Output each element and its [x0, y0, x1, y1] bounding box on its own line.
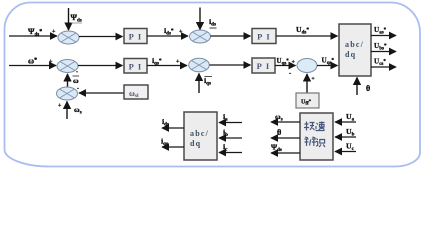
svg-text:ids: ids [162, 117, 169, 128]
wire Ψds* input [9, 35, 57, 37]
svg-text:-: - [289, 70, 291, 77]
wire ωs input to SJ3 (vertical) [66, 102, 68, 120]
wire ic input of U2 [219, 142, 242, 153]
wire ia input of U2 [219, 112, 242, 123]
wire ωs output of U3 [271, 112, 300, 123]
svg-text:+: + [179, 29, 183, 35]
summing junction SJ5 [190, 30, 211, 43]
svg-text:Uas*: Uas* [374, 26, 387, 36]
block speed identification U3 [300, 113, 333, 160]
svg-text:ω*: ω* [28, 57, 37, 66]
svg-text:abc/: abc/ [190, 129, 209, 138]
wire PI2 to abc/dq, label Uds* [276, 25, 338, 36]
label ω* [28, 57, 53, 66]
wire Uas* output [371, 26, 396, 36]
svg-text:P I: P I [257, 61, 271, 71]
wire Ub input of U3 [335, 127, 356, 138]
wire PI3 to SJ4, label iqs* + [147, 56, 187, 67]
wire Ψds feedback (vertical) [68, 8, 70, 30]
svg-text:-: - [76, 70, 78, 76]
svg-text:abc/: abc/ [345, 40, 364, 49]
svg-text:θ: θ [277, 128, 281, 137]
svg-text:iqs: iqs [161, 137, 168, 148]
summing junction SJ4 [189, 58, 210, 72]
svg-text:ids*: ids* [164, 26, 174, 37]
wire SJ5 to PI2 [211, 35, 251, 37]
svg-text:θ: θ [366, 84, 370, 93]
svg-text:+: + [49, 59, 53, 65]
svg-text:iqs: iqs [204, 76, 211, 87]
wire iqs output of U2 [161, 137, 184, 148]
wire θ output of U3 [271, 128, 300, 138]
wire ω* input [9, 65, 56, 67]
svg-text:Ub: Ub [346, 127, 355, 138]
svg-text:Ua: Ua [346, 112, 355, 123]
summing junction SJ3 [57, 87, 78, 100]
svg-text:+: + [176, 59, 180, 65]
wire PI1 to SJ5, label ids* + [147, 26, 188, 37]
wire SJ1 to PI1 [79, 36, 123, 38]
wire Uc input of U3 [335, 142, 356, 153]
label Ψds* [28, 27, 56, 38]
svg-text:+: + [58, 103, 62, 109]
wire ids output of U2 [162, 117, 184, 128]
svg-text:ωs: ωs [74, 105, 82, 116]
svg-text:-: - [77, 86, 79, 92]
wire ib input of U2 [219, 128, 242, 139]
svg-text:+: + [52, 29, 56, 35]
wire Ucs* output [371, 58, 396, 68]
svg-text:dq: dq [190, 139, 201, 148]
wire SJ6 to abc/dq, label Uqs* [317, 57, 338, 67]
svg-text:Ψds: Ψds [71, 13, 82, 24]
wire ids feedback (vertical) [199, 8, 201, 30]
svg-text:dq: dq [345, 50, 356, 59]
svg-text:P I: P I [129, 62, 143, 72]
svg-text:Uc: Uc [346, 142, 355, 153]
block abc/dq converter U1 [339, 24, 371, 76]
svg-text:Ucs*: Ucs* [374, 58, 386, 68]
svg-text:ia: ia [223, 112, 228, 123]
wire Ubs* output [371, 42, 396, 52]
summing junction SJ1 [58, 31, 79, 44]
border frame (decorative) [5, 3, 421, 167]
svg-text:ids: ids [209, 17, 216, 28]
block abc/dq current converter U2 [184, 112, 217, 160]
svg-text:+: + [292, 60, 296, 66]
PI controller PI1 [124, 29, 147, 44]
label θ [366, 84, 370, 93]
svg-text:+: + [312, 76, 315, 82]
block ωsl [124, 85, 148, 99]
wire Ψds output of U3 [271, 143, 300, 154]
wire θ into abc/dq (vertical) [356, 78, 358, 96]
svg-text:Ubs*: Ubs* [374, 42, 387, 52]
label iqs feedback [204, 76, 212, 87]
wire ω feedback SJ3 to SJ2 (vertical) [67, 74, 69, 87]
svg-text:ω: ω [73, 76, 79, 85]
wire Uff to SJ6 (vertical) [307, 74, 315, 93]
wire SJ4 to PI4 [210, 64, 251, 66]
wire iqs feedback (vertical) [198, 74, 200, 94]
PI controller PI3 [124, 59, 147, 74]
label Ψds [71, 13, 83, 24]
wire PI4 to SJ6, label Uqs* + [275, 57, 296, 77]
svg-text:ωs: ωs [275, 112, 283, 123]
label ids feedback [209, 17, 217, 28]
svg-text:Ψds: Ψds [271, 143, 282, 154]
block Uff feedforward [296, 93, 319, 108]
svg-text:ib: ib [223, 128, 228, 139]
svg-text:P I: P I [257, 32, 271, 42]
svg-text:ic: ic [223, 142, 228, 153]
PI controller PI2 [252, 29, 276, 44]
svg-text:Uqs*: Uqs* [322, 57, 335, 67]
wire SJ2 to PI3 [78, 65, 123, 67]
svg-text:P I: P I [129, 32, 143, 42]
label ωs + [58, 103, 82, 116]
svg-text:Uds*: Uds* [296, 25, 309, 36]
summing junction SJ2 [57, 60, 78, 73]
label ω bar and minus [73, 70, 80, 86]
wire Ua input of U3 [335, 112, 356, 123]
summing junction SJ6 [297, 59, 317, 73]
PI controller PI4 [252, 58, 275, 73]
wire ωsl block to SJ3 [77, 86, 124, 93]
